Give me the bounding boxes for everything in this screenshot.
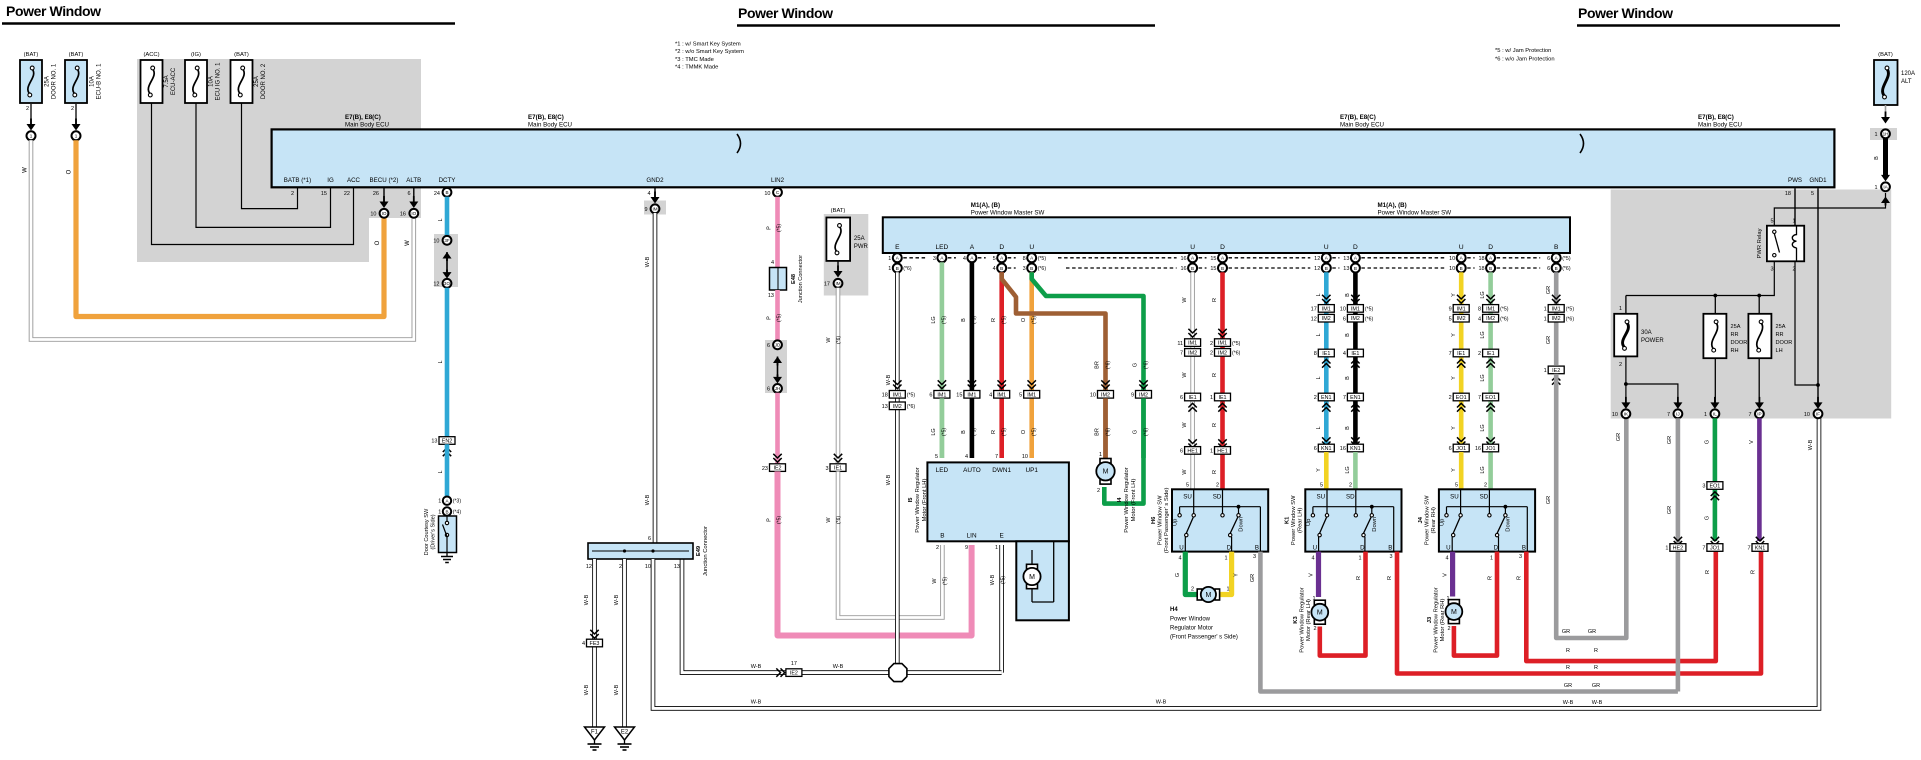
svg-text:M: M [1317,610,1323,617]
svg-text:8: 8 [1023,256,1026,262]
wire PWS to relay pin1 [1794,188,1796,225]
svg-text:U: U [1179,544,1183,551]
svg-text:10A: 10A [90,76,96,87]
svg-text:B: B [1345,333,1351,337]
connector EO1-2 [1453,393,1469,401]
joint 3F [443,236,452,245]
motor J3 rear RH [1448,600,1459,605]
joint circle 1 (fuse1) [27,131,36,140]
svg-text:1: 1 [1874,132,1877,138]
svg-text:(*6): (*6) [1144,361,1150,369]
svg-text:R: R [1387,576,1393,580]
wire Y H6 D pin to motor H4 [1220,552,1232,595]
wire B master A to regulator AUTO [970,262,975,458]
wire W-B E49-2 to ground E2 [622,559,627,727]
svg-text:(*6): (*6) [1144,428,1150,436]
connector EN1-7 [1347,393,1363,401]
H6 pin numbers [1178,554,1256,562]
svg-text:(ACC): (ACC) [143,52,159,58]
svg-text:Motor (Front LH): Motor (Front LH) [922,479,928,522]
svg-text:W: W [826,337,832,343]
connector HE1-6 [1188,439,1196,447]
svg-text:KN1: KN1 [1321,446,1332,452]
svg-text:Power Window Regulator: Power Window Regulator [1300,587,1306,652]
svg-text:B: B [1554,244,1559,251]
connector IM1-17/IM2-12 [1318,305,1334,313]
fuse 30A POWER [1614,314,1664,357]
wire GR H6 B pin to IJ riser [1260,552,1678,692]
svg-text:(Rear RH): (Rear RH) [1431,507,1437,533]
svg-text:18: 18 [1478,266,1484,272]
svg-text:LG: LG [1480,424,1486,431]
svg-text:6: 6 [1314,446,1317,452]
svg-text:IO: IO [411,211,416,216]
svg-text:18: 18 [882,393,888,399]
label M1(A)(B) right [1378,202,1452,217]
svg-text:IM1: IM1 [1218,341,1227,347]
svg-text:P: P [767,316,773,320]
wire BR master D(B) branch to front LH motor [1002,272,1106,458]
wire LG KN1-16 to K1 SD [1353,452,1358,489]
svg-text:L: L [1316,426,1322,429]
svg-text:(*5): (*5) [1232,341,1241,347]
connector JO1-16 [1486,437,1494,445]
svg-text:10: 10 [1449,256,1455,262]
svg-text:O: O [375,240,381,245]
svg-text:W-B: W-B [751,700,762,706]
svg-text:(*5): (*5) [1566,307,1575,313]
svg-text:4: 4 [993,266,996,272]
fuse 10A ECU IG NO.1 [185,52,222,103]
svg-text:B: B [1345,293,1351,297]
svg-text:12: 12 [586,564,592,570]
svg-text:12: 12 [433,282,439,288]
svg-text:(*6): (*6) [1038,266,1047,272]
svg-text:IM2: IM2 [1322,316,1331,322]
svg-text:(Driver's Side): (Driver's Side) [431,514,437,549]
svg-text:JH: JH [775,386,781,391]
svg-text:5: 5 [1811,191,1814,197]
svg-text:ALT: ALT [1901,79,1912,85]
svg-text:25A: 25A [254,76,260,87]
gray background block left fuse group [137,59,421,218]
svg-text:Down: Down [1239,517,1245,532]
svg-text:7: 7 [1747,546,1750,552]
svg-text:E7(B), E8(C): E7(B), E8(C) [1698,114,1734,121]
svg-text:6: 6 [1180,395,1183,401]
connector IE2 pin23 [770,464,786,472]
svg-text:Motor (Rear LH): Motor (Rear LH) [1306,599,1312,641]
svg-text:(*5): (*5) [1365,307,1374,313]
svg-text:M1(A), (B): M1(A), (B) [1378,202,1407,209]
svg-text:IM1: IM1 [1552,306,1561,312]
label E7(B) E8(C) Main Body ECU [1698,114,1742,129]
svg-text:9: 9 [1131,393,1134,399]
ground below door courtesy SW [446,553,448,557]
svg-text:W: W [23,167,29,173]
svg-text:L: L [1316,293,1322,296]
harness joint arrows JD-JH [773,357,782,364]
svg-text:HE1: HE1 [1187,448,1198,454]
svg-text:B: B [1221,266,1224,271]
svg-text:W-B: W-B [645,256,651,267]
svg-text:R: R [1705,570,1711,574]
svg-text:U: U [1313,544,1317,551]
svg-text:GR: GR [1564,683,1572,689]
svg-text:Main Body ECU: Main Body ECU [1340,122,1384,129]
svg-text:M1(A), (B): M1(A), (B) [971,202,1000,209]
svg-text:JD: JD [775,343,781,348]
svg-text:IM2: IM2 [1188,350,1197,356]
wire O fuse2 to BECU [76,140,384,316]
svg-text:7: 7 [995,454,998,460]
svg-text:W: W [1182,469,1188,475]
svg-text:5: 5 [1770,219,1773,225]
svg-text:1: 1 [1544,368,1547,374]
svg-text:IM2: IM2 [893,404,902,410]
svg-text:(*5): (*5) [1032,428,1038,436]
svg-text:(BAT): (BAT) [1878,52,1893,58]
I5 labels [936,467,1039,540]
svg-text:Junction Connector: Junction Connector [703,526,709,576]
label J3 [1427,587,1446,652]
svg-text:(*5): (*5) [1002,316,1008,324]
svg-text:(*5): (*5) [972,316,978,324]
svg-text:E: E [895,244,900,251]
wire B 1H to IA [1883,138,1888,176]
svg-text:W-B: W-B [1563,700,1574,706]
svg-text:12: 12 [1311,316,1317,322]
svg-text:R: R [1212,373,1218,377]
svg-text:(*5): (*5) [942,316,948,324]
svg-text:W-B: W-B [584,684,590,695]
motor I4 power window regulator motor front LH [1096,459,1114,485]
svg-text:8: 8 [1314,351,1317,357]
svg-text:5: 5 [935,454,938,460]
svg-text:IM1: IM1 [1188,341,1197,347]
svg-text:2: 2 [291,191,294,197]
svg-text:6: 6 [1547,256,1550,262]
svg-text:L: L [1316,376,1322,379]
svg-text:B: B [1345,376,1351,380]
svg-text:ECU-ACC: ECU-ACC [171,67,177,95]
svg-text:1: 1 [1665,546,1668,552]
svg-text:W-B: W-B [645,494,651,505]
joint IK [1622,409,1631,418]
svg-text:7: 7 [1667,412,1670,418]
svg-text:AUTO: AUTO [963,467,981,474]
svg-text:1: 1 [1704,412,1707,418]
svg-text:(*6): (*6) [1232,351,1241,357]
svg-text:DOOR: DOOR [1776,340,1793,346]
connector JO1-6 [1457,437,1465,445]
svg-text:(BAT): (BAT) [234,52,249,58]
svg-text:10: 10 [1804,412,1810,418]
wire GR IE2-1 to IK riser [1556,374,1626,638]
motor H4 front passenger [1197,589,1202,600]
svg-text:LH: LH [1776,348,1783,354]
svg-text:EO1: EO1 [1485,395,1496,401]
svg-text:Down: Down [1372,517,1378,532]
E49 pin numbers [586,564,680,570]
wire V IP to KN1-7 [1757,418,1762,541]
door courtesy SW label [424,508,437,555]
svg-text:3: 3 [1519,554,1522,560]
svg-text:IM1: IM1 [1351,306,1360,312]
connector JO1-7 [1711,537,1719,545]
wire W-B horizontal E49-13 to regulator E [682,559,1002,673]
Main Body ECU connector band E7(B) E8(C) [272,129,1835,187]
svg-text:R: R [1594,648,1598,654]
svg-text:IM: IM [835,281,840,286]
svg-text:3: 3 [1253,554,1256,560]
svg-text:B: B [1874,156,1880,160]
svg-text:R: R [991,430,997,434]
svg-text:(*5): (*5) [972,428,978,436]
svg-text:3: 3 [1770,267,1773,273]
svg-text:IM1: IM1 [967,392,976,398]
svg-text:(*6): (*6) [836,336,842,344]
svg-text:IO: IO [382,211,387,216]
svg-text:R: R [1751,570,1757,574]
gray box behind 1H joint [1870,128,1897,140]
svg-text:EO1: EO1 [1456,395,1467,401]
svg-text:1: 1 [75,134,78,139]
connector IM1-9/IM2-5 [1457,295,1465,303]
svg-text:BATB (*1): BATB (*1) [284,177,311,184]
title Power Window (right) [1577,5,1840,26]
svg-text:JO1: JO1 [1486,446,1496,452]
svg-text:LG: LG [1480,291,1486,298]
wire L EN2 to door courtesy SW [445,444,450,496]
svg-text:M: M [1103,469,1109,476]
svg-text:16: 16 [1180,266,1186,272]
svg-text:IE1: IE1 [834,466,842,472]
Power Window Master SW band M1(A)(B) [883,217,1570,253]
wire relay pin3 to fuse rail [1626,261,1774,295]
junction connector E49 [588,543,693,559]
fuse 25A RR DOOR LH [1748,314,1792,358]
svg-text:IM1: IM1 [1486,306,1495,312]
title Power Window (center) [737,5,1155,26]
arrow into joint 1 (fuse2) [72,124,81,131]
wire relay pin5 to IA [1774,193,1885,226]
svg-text:1: 1 [1544,316,1547,322]
svg-text:E7(B), E8(C): E7(B), E8(C) [1340,114,1376,121]
svg-text:R: R [1212,298,1218,302]
svg-text:18: 18 [1478,256,1484,262]
svg-text:4: 4 [1178,556,1181,562]
svg-text:IE1: IE1 [1351,351,1359,357]
connector IM1-8/IM2-4 [1486,295,1494,303]
label I5 rotated [908,467,928,532]
svg-text:Power Window SW: Power Window SW [1424,495,1430,545]
svg-text:1: 1 [1099,452,1102,458]
wire L 3O to EN2 [445,288,450,437]
svg-text:Power Window SW: Power Window SW [1158,495,1164,545]
svg-text:GR: GR [1667,436,1673,444]
wire P LIN2 to E48 [775,197,780,267]
wire fuse PWR to IM joint [837,261,839,272]
svg-text:IM2: IM2 [1218,350,1227,356]
svg-text:5: 5 [1320,483,1323,489]
svg-text:25A: 25A [1731,324,1741,330]
relay pin numbers [1770,219,1795,273]
svg-text:Y: Y [1451,333,1457,337]
svg-text:2: 2 [1349,483,1352,489]
DCTY joint circle B [443,188,452,197]
svg-text:23: 23 [762,466,768,472]
svg-text:IE2: IE2 [773,466,781,472]
svg-text:(BAT): (BAT) [69,52,84,58]
connector IM1-11/IM2-7 [1185,339,1201,347]
svg-text:*1 : w/ Smart Key System: *1 : w/ Smart Key System [675,42,741,48]
svg-text:LIN: LIN [967,533,977,540]
svg-text:IM1: IM1 [997,392,1006,398]
svg-text:Y: Y [1234,573,1240,577]
connector IM1-4 [998,380,1006,388]
connector IE2-1 [1548,366,1564,374]
svg-text:(*5): (*5) [1038,256,1047,262]
svg-text:(*6): (*6) [1562,266,1571,272]
fuse 10A ECU-B NO.1 [65,52,103,126]
label K3 [1293,587,1312,652]
wire Y master10 to EO1 (rear RH up) [1459,272,1464,443]
I5 bottom pin numbers [936,545,998,551]
svg-text:*6 : w/o Jam Protection: *6 : w/o Jam Protection [1495,57,1555,63]
joint circle 1 (fuse2) [72,131,81,140]
wire R master15 to front passenger SD [1220,272,1225,489]
svg-text:(*6): (*6) [1106,361,1112,369]
chevrons above IM1-11 [1188,329,1196,337]
svg-text:IE1: IE1 [1218,395,1226,401]
connector IM2-10 [1101,380,1109,388]
svg-text:1: 1 [888,266,891,272]
svg-text:(*5): (*5) [942,428,948,436]
band break marks [737,134,741,153]
svg-text:6: 6 [767,343,770,349]
svg-text:*4 : TMMK Made: *4 : TMMK Made [675,65,718,71]
svg-text:B: B [961,430,967,434]
svg-text:PWS: PWS [1788,177,1802,184]
svg-text:SD: SD [1480,493,1489,500]
label E7(B) E8(C) Main Body ECU [528,114,572,129]
svg-text:10: 10 [1022,454,1028,460]
svg-text:1: 1 [1490,556,1493,562]
wire IG fuse to ECU pin15 [196,103,331,227]
svg-text:GR: GR [1588,629,1596,635]
connector KN1-6 [1322,437,1330,445]
junction connector E48 [770,268,787,291]
svg-text:(*5): (*5) [777,224,783,232]
svg-text:DOOR NO. 1: DOOR NO. 1 [52,63,58,99]
svg-text:D: D [1220,244,1225,251]
svg-text:I5: I5 [908,497,914,503]
svg-text:16: 16 [1475,446,1481,452]
svg-text:4: 4 [965,454,968,460]
svg-text:(*5): (*5) [777,516,783,524]
svg-text:IM2: IM2 [1486,316,1495,322]
svg-text:Power Window: Power Window [1578,5,1673,21]
wire relay pin2 to GND1 join [1795,261,1818,385]
svg-text:GND1: GND1 [1809,177,1827,184]
svg-text:16: 16 [1340,446,1346,452]
svg-text:O: O [67,169,73,174]
PWR relay box [1767,226,1804,262]
svg-text:SU: SU [1316,493,1325,500]
connector IE1 pin3 [830,464,846,472]
I5 internal motor [1023,541,1053,602]
wire R motor K3 to K1 D pin [1320,552,1366,656]
wire W fuse1 to ALTB [31,140,414,339]
svg-text:P: P [767,226,773,230]
svg-text:2: 2 [26,106,29,112]
svg-text:7: 7 [1702,546,1705,552]
svg-text:LG: LG [1345,466,1351,473]
svg-text:18: 18 [1785,191,1791,197]
connector IE1-2 [1483,349,1499,357]
svg-text:B: B [896,266,899,271]
svg-text:D: D [1488,244,1493,251]
svg-text:(Front Passenger' s Side): (Front Passenger' s Side) [1164,487,1170,553]
svg-text:4: 4 [1343,351,1346,357]
joint IJ [1674,409,1683,418]
svg-text:15: 15 [1210,266,1216,272]
svg-text:DOOR NO. 2: DOOR NO. 2 [261,63,267,99]
svg-text:6: 6 [648,536,651,542]
svg-text:2: 2 [1484,483,1487,489]
svg-text:Y: Y [1451,293,1457,297]
svg-text:5: 5 [1455,483,1458,489]
svg-text:Main Body ECU: Main Body ECU [1698,122,1742,129]
connector IM1-5 [1028,380,1036,388]
master pins row B circles [893,264,902,273]
svg-text:Power Window Regulator: Power Window Regulator [1434,587,1440,652]
wire R motor J3 to J4 D pin [1454,552,1497,656]
svg-text:4: 4 [771,260,774,266]
svg-text:ACC: ACC [347,177,361,184]
svg-text:W-B: W-B [751,664,762,670]
svg-text:KN1: KN1 [1350,446,1361,452]
I5 sub box with motor [1016,541,1069,620]
chevrons above IM1-17 [1322,295,1330,303]
wire W master16 to front passenger SU [1190,272,1195,489]
svg-text:6: 6 [407,191,410,197]
svg-text:*3 : TMC Made: *3 : TMC Made [675,57,714,63]
svg-text:12: 12 [1314,266,1320,272]
wire W IE1-3 to regulator B pin [838,471,942,617]
wire G H6 U pin to motor H4 [1185,552,1197,595]
wire LG master18 to JO1 (rear RH down) [1488,272,1493,489]
svg-text:8: 8 [1478,307,1481,313]
svg-text:LG: LG [1480,466,1486,473]
svg-text:(*6): (*6) [1365,316,1374,322]
svg-text:IE1: IE1 [1487,351,1495,357]
svg-text:L: L [1316,333,1322,336]
svg-text:O: O [1021,317,1027,322]
svg-text:ECU IG NO. 1: ECU IG NO. 1 [216,62,222,101]
wire P E48 to JD [775,290,780,341]
svg-text:DOOR: DOOR [1731,340,1748,346]
svg-text:E48: E48 [791,274,797,284]
master SW pin row dashed lines [903,258,1540,268]
svg-text:(*5): (*5) [1500,307,1509,313]
svg-text:Motor (Rear RH): Motor (Rear RH) [1440,599,1446,642]
svg-text:(*4): (*4) [453,510,462,516]
svg-text:IM1: IM1 [937,392,946,398]
E48 label [791,255,804,303]
svg-text:W-B: W-B [1156,700,1167,706]
